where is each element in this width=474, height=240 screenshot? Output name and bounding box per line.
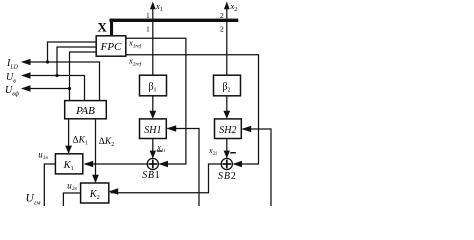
node x2i label (208, 146, 217, 157)
block K2 (81, 183, 109, 203)
node x2 label (230, 1, 238, 13)
node x1i label (156, 143, 165, 154)
wire SB1 to K1 (84, 161, 148, 168)
svg-text:2: 2 (220, 25, 224, 34)
svg-text:SH2: SH2 (219, 125, 236, 136)
node x2ref label (128, 55, 143, 67)
node Ugm label (26, 193, 41, 207)
svg-text:1: 1 (146, 25, 150, 34)
svg-text:SB2: SB2 (218, 171, 237, 182)
block K1 (55, 154, 82, 174)
node SB2 label (218, 171, 237, 182)
svg-text:PAB: PAB (75, 105, 95, 117)
wire FPC pin a to ILD line (48, 42, 97, 62)
wire Uv out left and to PAB (21, 72, 85, 100)
node u2 label (67, 180, 77, 192)
node dK2 label (99, 137, 114, 148)
svg-text:1: 1 (146, 11, 150, 20)
block SH2 (215, 119, 242, 139)
summing junction SB1 (147, 158, 158, 169)
block B1 (140, 75, 167, 96)
node Uv label (6, 72, 16, 84)
wire x2 bus to B2 (226, 22, 228, 75)
svg-text:SB1: SB1 (142, 170, 160, 181)
pin 1 below bar (146, 25, 150, 34)
wire B1 to SH1 (149, 96, 156, 119)
junction dot Uv (55, 74, 58, 77)
wire SB2 to K2 (109, 164, 222, 195)
pin 2 above bar (220, 11, 224, 20)
wire feedback into SH1 right (167, 125, 199, 206)
wire FPC pin c to Uvf line (70, 52, 97, 89)
summing junction SB2 (221, 158, 232, 169)
svg-text:2: 2 (220, 11, 224, 20)
junction dot Uvf (68, 87, 71, 90)
wire thick X to FPC (110, 19, 113, 36)
node u1 label (38, 149, 48, 161)
node X label (98, 19, 108, 34)
svg-text:X: X (98, 19, 108, 34)
pin 2 below bar (220, 25, 224, 34)
wire K2 output left down (63, 193, 80, 206)
svg-text:FPC: FPC (100, 41, 122, 53)
wire x2 arrow up (224, 2, 230, 19)
block B2 (214, 75, 241, 96)
wire x1 arrow up (150, 2, 156, 19)
wire ILD out left and to PAB (21, 59, 100, 100)
wire SH1 to SB1 (150, 139, 156, 159)
node Uvf label (5, 85, 20, 97)
node dK1 label (73, 135, 88, 146)
block PAB (65, 101, 107, 119)
wire K1 output left down (44, 164, 55, 206)
wire SH2 to SB2 (224, 139, 230, 159)
wire x1ref FPC to SB1 (126, 38, 186, 167)
wire FPC pin b to Uv line (57, 47, 96, 76)
wire feedback into SH2 right (242, 126, 271, 206)
pin 1 above bar (146, 11, 150, 20)
node x1 label (155, 1, 163, 13)
wire dK1 PAB to K1 (65, 119, 72, 154)
wire Uvf out left and to PAB (21, 85, 70, 100)
wire x1 bus to B1 (152, 22, 154, 75)
block SH1 (140, 119, 167, 139)
wire x2ref FPC to SB2 (126, 55, 259, 168)
node ILD label (6, 58, 19, 70)
bus bar X (110, 19, 239, 22)
svg-text:SH1: SH1 (144, 125, 161, 136)
node x1ref label (128, 37, 143, 49)
minus sign SB2 (230, 152, 236, 154)
node SB1 label (142, 170, 160, 181)
wire dK2 PAB to K2 (92, 119, 99, 183)
wire B2 to SH2 (223, 96, 230, 119)
junction dot ILD (46, 60, 49, 63)
minus sign SB1 (157, 150, 162, 151)
block FPC (96, 36, 126, 56)
